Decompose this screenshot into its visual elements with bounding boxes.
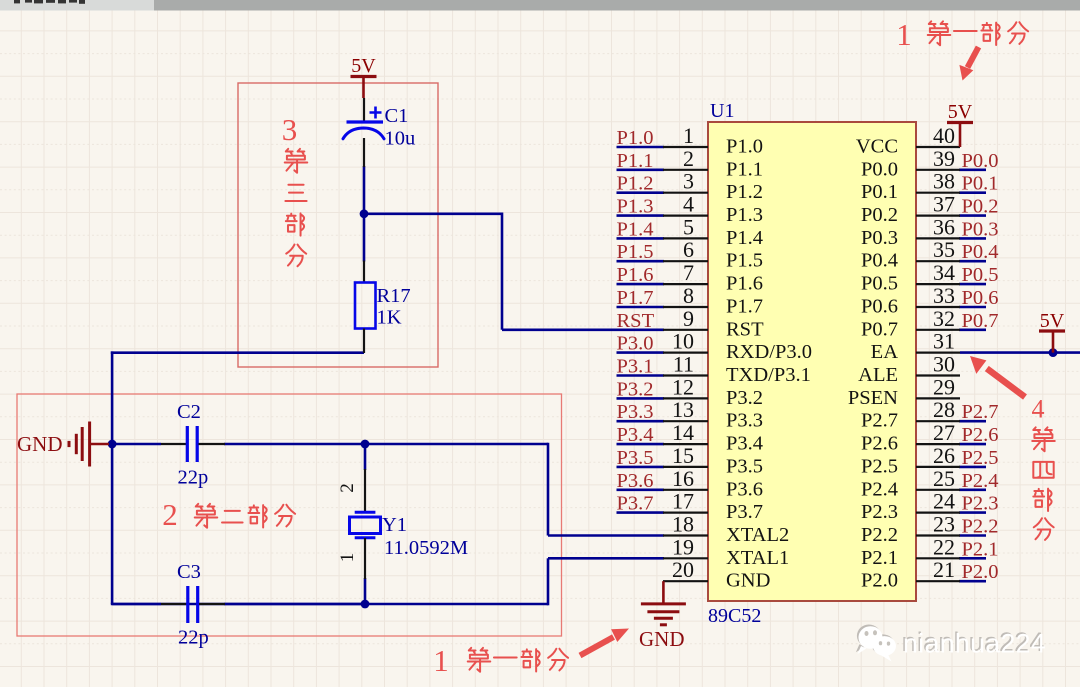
svg-text:P3.6: P3.6: [726, 478, 763, 500]
svg-text:5V: 5V: [948, 101, 973, 123]
svg-text:8: 8: [683, 283, 694, 308]
svg-text:40: 40: [933, 123, 955, 148]
svg-text:9: 9: [683, 306, 694, 331]
svg-text:XTAL1: XTAL1: [726, 547, 789, 569]
svg-text:P1.6: P1.6: [726, 273, 763, 295]
svg-text:P2.5: P2.5: [962, 447, 999, 469]
svg-text:27: 27: [933, 420, 955, 445]
svg-text:2: 2: [337, 483, 358, 493]
svg-text:RXD/P3.0: RXD/P3.0: [726, 341, 812, 363]
svg-text:R17: R17: [377, 285, 411, 307]
svg-text:1: 1: [683, 123, 694, 148]
svg-text:XTAL2: XTAL2: [726, 524, 789, 546]
svg-text:P1.7: P1.7: [726, 296, 763, 318]
svg-text:39: 39: [933, 146, 955, 171]
svg-text:P1.7: P1.7: [617, 287, 654, 309]
svg-text:RST: RST: [726, 318, 764, 340]
svg-text:P2.6: P2.6: [962, 424, 999, 446]
svg-text:26: 26: [933, 443, 955, 468]
svg-text:ALE: ALE: [858, 364, 898, 386]
svg-text:P0.6: P0.6: [861, 296, 898, 318]
svg-text:P1.6: P1.6: [617, 264, 654, 286]
svg-text:nianhua224: nianhua224: [903, 629, 1046, 659]
svg-text:C3: C3: [177, 561, 201, 583]
svg-text:35: 35: [933, 237, 955, 262]
svg-text:25: 25: [933, 466, 955, 491]
svg-text:2: 2: [162, 497, 178, 532]
svg-text:P3.0: P3.0: [617, 333, 654, 355]
svg-text:GND: GND: [17, 432, 63, 456]
svg-text:GND: GND: [639, 627, 685, 651]
svg-text:P0.0: P0.0: [962, 150, 999, 172]
svg-text:P3.4: P3.4: [726, 433, 763, 455]
svg-text:P3.2: P3.2: [617, 378, 654, 400]
svg-text:EA: EA: [871, 341, 899, 363]
svg-text:P0.0: P0.0: [861, 158, 898, 180]
svg-text:P2.2: P2.2: [861, 524, 898, 546]
svg-text:P3.3: P3.3: [617, 401, 654, 423]
svg-text:P2.4: P2.4: [861, 478, 898, 500]
svg-text:22p: 22p: [178, 467, 209, 489]
svg-text:5V: 5V: [351, 55, 376, 77]
svg-text:P2.7: P2.7: [962, 401, 999, 423]
svg-text:P0.5: P0.5: [962, 264, 999, 286]
svg-text:37: 37: [933, 192, 955, 217]
svg-text:14: 14: [672, 420, 694, 445]
svg-text:P2.2: P2.2: [962, 516, 999, 538]
svg-text:30: 30: [933, 352, 955, 377]
svg-text:P1.0: P1.0: [726, 136, 763, 158]
svg-text:5: 5: [683, 214, 694, 239]
svg-text:P0.4: P0.4: [962, 241, 999, 263]
svg-text:P2.0: P2.0: [861, 570, 898, 592]
svg-text:P3.2: P3.2: [726, 387, 763, 409]
svg-text:P0.1: P0.1: [962, 173, 999, 195]
svg-text:36: 36: [933, 214, 955, 239]
svg-text:RST: RST: [617, 310, 655, 332]
svg-text:6: 6: [683, 237, 694, 262]
svg-text:P0.1: P0.1: [861, 181, 898, 203]
svg-text:33: 33: [933, 283, 955, 308]
svg-text:P1.1: P1.1: [726, 158, 763, 180]
svg-text:P1.4: P1.4: [617, 218, 654, 240]
svg-text:4: 4: [683, 192, 694, 217]
svg-text:P3.1: P3.1: [617, 356, 654, 378]
svg-text:22: 22: [933, 534, 955, 559]
svg-text:P1.3: P1.3: [617, 196, 654, 218]
svg-text:P3.7: P3.7: [617, 493, 654, 515]
svg-text:P0.5: P0.5: [861, 273, 898, 295]
svg-text:P0.7: P0.7: [861, 318, 898, 340]
svg-text:P2.4: P2.4: [962, 470, 999, 492]
svg-text:21: 21: [933, 557, 955, 582]
svg-text:3: 3: [282, 112, 298, 147]
svg-text:19: 19: [672, 534, 694, 559]
svg-text:P2.1: P2.1: [861, 547, 898, 569]
svg-text:22p: 22p: [178, 627, 209, 649]
svg-text:P3.4: P3.4: [617, 424, 654, 446]
svg-text:29: 29: [933, 374, 955, 399]
svg-text:P0.3: P0.3: [861, 227, 898, 249]
svg-text:P0.7: P0.7: [962, 310, 999, 332]
svg-text:VCC: VCC: [856, 136, 898, 158]
svg-text:P1.4: P1.4: [726, 227, 763, 249]
svg-text:P0.6: P0.6: [962, 287, 999, 309]
svg-text:P1.5: P1.5: [726, 250, 763, 272]
svg-text:10: 10: [672, 329, 694, 354]
svg-text:P2.0: P2.0: [962, 561, 999, 583]
svg-text:11.0592M: 11.0592M: [384, 537, 468, 559]
svg-text:P1.5: P1.5: [617, 241, 654, 263]
svg-text:P2.6: P2.6: [861, 433, 898, 455]
svg-text:20: 20: [672, 557, 694, 582]
svg-text:38: 38: [933, 169, 955, 194]
svg-text:34: 34: [933, 260, 955, 285]
svg-text:89C52: 89C52: [708, 605, 761, 627]
svg-text:P1.0: P1.0: [617, 127, 654, 149]
svg-text:P1.3: P1.3: [726, 204, 763, 226]
svg-text:15: 15: [672, 443, 694, 468]
svg-text:1: 1: [896, 17, 912, 52]
svg-text:18: 18: [672, 512, 694, 537]
svg-text:4: 4: [1032, 395, 1045, 424]
svg-text:P2.5: P2.5: [861, 455, 898, 477]
svg-text:16: 16: [672, 466, 694, 491]
svg-text:P1.2: P1.2: [726, 181, 763, 203]
svg-text:1: 1: [337, 553, 358, 563]
svg-text:P1.1: P1.1: [617, 150, 654, 172]
svg-text:GND: GND: [726, 570, 770, 592]
svg-text:11: 11: [673, 352, 694, 377]
svg-text:P0.4: P0.4: [861, 250, 898, 272]
svg-text:TXD/P3.1: TXD/P3.1: [726, 364, 811, 386]
svg-text:10u: 10u: [385, 128, 416, 150]
svg-text:P3.5: P3.5: [617, 447, 654, 469]
svg-text:13: 13: [672, 397, 694, 422]
svg-text:P2.1: P2.1: [962, 538, 999, 560]
svg-text:28: 28: [933, 397, 955, 422]
svg-text:P3.6: P3.6: [617, 470, 654, 492]
svg-text:C2: C2: [177, 401, 201, 423]
svg-text:24: 24: [933, 489, 955, 514]
svg-text:P3.3: P3.3: [726, 410, 763, 432]
svg-text:5V: 5V: [1040, 310, 1065, 332]
svg-text:P0.2: P0.2: [861, 204, 898, 226]
svg-text:1: 1: [433, 643, 449, 678]
svg-text:23: 23: [933, 512, 955, 537]
svg-text:P0.3: P0.3: [962, 218, 999, 240]
svg-text:1K: 1K: [377, 307, 402, 329]
svg-text:P2.3: P2.3: [861, 501, 898, 523]
svg-text:P2.7: P2.7: [861, 410, 898, 432]
svg-text:7: 7: [683, 260, 694, 285]
svg-text:P3.7: P3.7: [726, 501, 763, 523]
svg-text:P0.2: P0.2: [962, 196, 999, 218]
svg-text:17: 17: [672, 489, 694, 514]
svg-text:Y1: Y1: [382, 514, 407, 536]
svg-text:PSEN: PSEN: [848, 387, 898, 409]
svg-text:P3.5: P3.5: [726, 455, 763, 477]
svg-text:P1.2: P1.2: [617, 173, 654, 195]
svg-text:P2.3: P2.3: [962, 493, 999, 515]
svg-text:31: 31: [933, 329, 955, 354]
svg-text:32: 32: [933, 306, 955, 331]
svg-text:C1: C1: [385, 105, 409, 127]
svg-text:3: 3: [683, 169, 694, 194]
svg-text:U1: U1: [710, 100, 734, 122]
svg-text:12: 12: [672, 374, 694, 399]
svg-text:2: 2: [683, 146, 694, 171]
